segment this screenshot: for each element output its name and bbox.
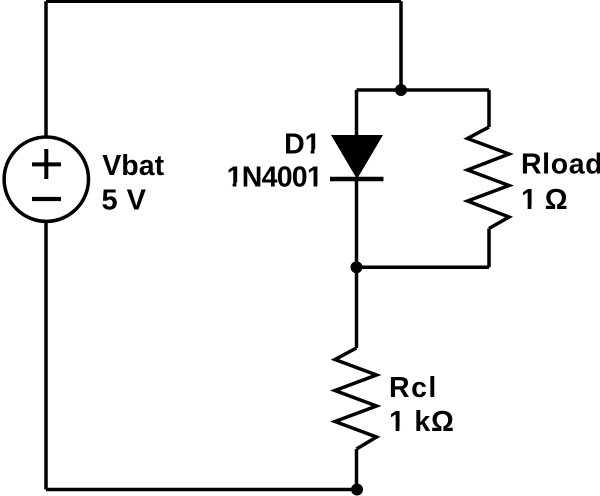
- wire diode anode: [355, 90, 359, 136]
- svg-text:Rload: Rload: [521, 149, 600, 181]
- svg-text:1 kΩ: 1 kΩ: [389, 406, 455, 438]
- digit-1 glyph style patches: [228, 149, 536, 431]
- wire top horizontal: [46, 0, 401, 3]
- node junction top: [395, 84, 407, 96]
- svg-text:1N4001: 1N4001: [227, 161, 323, 193]
- wire diode cathode: [355, 179, 359, 267]
- wire rcl top: [355, 267, 359, 348]
- wire bottom horizontal: [46, 488, 357, 492]
- svg-text:Vbat: Vbat: [102, 150, 164, 182]
- voltage source Vbat circle: [4, 137, 88, 221]
- wire rload top: [487, 90, 491, 127]
- voltage source plus sign: [32, 149, 61, 179]
- svg-text:1 Ω: 1 Ω: [521, 184, 568, 216]
- wire lower bus horizontal: [357, 266, 490, 270]
- resistor Rcl zigzag: [335, 348, 377, 449]
- resistor Rload zigzag: [468, 127, 510, 229]
- wire rload bottom: [487, 229, 491, 268]
- wire left vertical upper: [44, 1, 48, 136]
- node junction bottom: [351, 484, 363, 496]
- wire upper bus horizontal: [357, 88, 490, 92]
- diode D1 cathode bar: [330, 177, 384, 182]
- diode D1 triangle: [331, 135, 383, 179]
- wire top mid vertical: [399, 1, 403, 90]
- wire rcl bottom: [355, 449, 359, 490]
- wire left vertical lower: [44, 223, 48, 490]
- node junction mid: [351, 261, 363, 273]
- svg-text:D1: D1: [284, 128, 321, 160]
- svg-text:5 V: 5 V: [102, 184, 147, 216]
- voltage source minus sign: [32, 197, 61, 201]
- svg-text:Rcl: Rcl: [389, 372, 438, 404]
